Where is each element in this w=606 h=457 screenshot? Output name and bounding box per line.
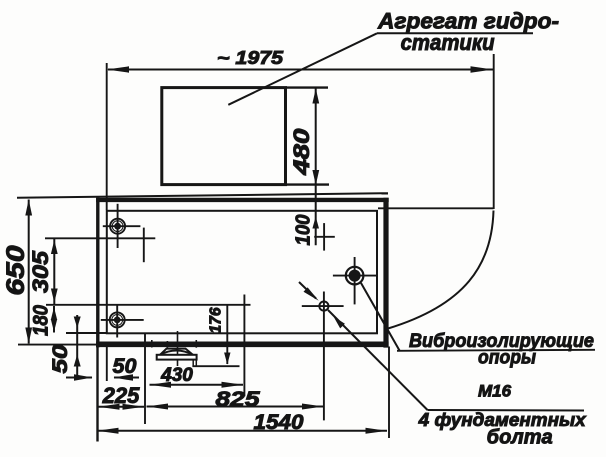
svg-text:М16: М16	[478, 382, 512, 401]
svg-text:825: 825	[216, 387, 261, 411]
dimension 50 horizontal left segment with arrow	[66, 377, 92, 379]
svg-text:180: 180	[30, 305, 53, 336]
dimension 430 arrow left	[150, 382, 172, 388]
unit bottom edge extension	[286, 183, 330, 185]
dimension 180 arrow top	[51, 307, 57, 320]
plate right edge extended down	[388, 347, 390, 439]
svg-text:50: 50	[113, 354, 137, 378]
dimension 305 arrow bottom	[51, 289, 58, 303]
dimension ~1975 arrow right	[471, 66, 494, 72]
dimension 305 arrow top	[51, 240, 58, 254]
dimension 50 vertical arrow down	[74, 317, 81, 329]
hydrostatic unit label underline	[377, 32, 533, 34]
dimension 225 arrow right	[123, 404, 145, 410]
dimension 100 arrow	[312, 217, 319, 229]
foot base bar	[157, 355, 197, 360]
dimension 825 arrow right	[302, 404, 324, 410]
foot dome	[160, 349, 193, 355]
corner arc	[388, 211, 494, 329]
foot centerline	[177, 331, 179, 366]
plate left edge extended down	[96, 347, 98, 442]
anchor hole crosshair horizontal	[302, 305, 344, 307]
dimension 1540 arrow right	[366, 428, 388, 434]
bolt top-left center dot	[114, 223, 121, 230]
svg-text:~ 1975: ~ 1975	[217, 47, 284, 68]
dimension 1540 line	[97, 430, 387, 432]
dimension 825 arrow left	[147, 404, 169, 410]
foundation plate inner outline	[107, 211, 377, 333]
dimension 1540 arrow left	[97, 428, 119, 434]
bolt bottom-left crosshair horizontal	[101, 319, 144, 321]
foot tick marks across plate bottom	[151, 340, 153, 348]
dimension 305 line	[53, 239, 55, 305]
leader to vibration supports label	[361, 283, 400, 351]
plate inner left line extended down	[106, 347, 108, 382]
hole cross left vertical	[143, 228, 145, 263]
vibration support crosshair vertical	[354, 257, 356, 304]
svg-text:опоры: опоры	[478, 347, 536, 369]
floor line	[17, 193, 388, 198]
hole cross right horizontal	[314, 236, 335, 238]
svg-text:305: 305	[28, 250, 53, 293]
step line near foot stem	[192, 365, 239, 367]
leader to foundation bolts label	[328, 310, 428, 410]
svg-text:50: 50	[48, 344, 72, 373]
dimension 305 top extension line	[45, 237, 155, 239]
dimension 430 right extension	[243, 295, 245, 397]
dimension ~1975 arrow left	[107, 66, 130, 72]
dimension 650 arrow top	[25, 200, 32, 216]
inner bottom line extension left	[66, 332, 107, 334]
dimension 430 arrow right	[222, 382, 244, 388]
foot dome inner arc	[160, 351, 193, 355]
svg-text:100: 100	[292, 214, 315, 246]
vibration support crosshair horizontal	[333, 275, 377, 277]
leader to hydrostatic unit	[228, 33, 377, 105]
svg-text:статики: статики	[401, 30, 496, 55]
bolt top-left outer circle	[110, 219, 125, 234]
vibration support bolt outer circle	[346, 267, 364, 285]
bolt bottom-left inner ring	[112, 315, 123, 326]
dimension 480 arrow bottom	[312, 170, 319, 185]
dimension 430 line	[150, 384, 244, 386]
dimension ~1975 extension line left	[106, 63, 108, 210]
bolt bottom-left crosshair vertical	[116, 304, 118, 338]
bolt top-left crosshair horizontal	[103, 225, 141, 227]
dimension 650 arrow bottom	[25, 328, 32, 344]
anchor hole small circle	[319, 302, 328, 311]
foundation bolts label overline	[428, 409, 585, 412]
dimension 50 vertical arrow up	[74, 355, 81, 367]
dimension ~1975 line	[108, 69, 493, 71]
dimension 480 line	[315, 88, 317, 246]
bolt bottom-left outer circle	[110, 312, 125, 327]
hole cross right vertical	[323, 223, 325, 251]
svg-text:1540: 1540	[254, 410, 304, 434]
bolt top-left inner ring	[112, 221, 123, 232]
dimension 305 bottom extension line	[46, 304, 251, 306]
foot stem	[192, 360, 194, 367]
unit top edge extension	[286, 86, 329, 88]
svg-text:650: 650	[2, 245, 30, 295]
dimension 176 line	[226, 305, 228, 364]
bolt bottom-left center dot	[114, 317, 121, 324]
dimension 50 horizontal right segment with arrow	[114, 377, 139, 379]
dimension 176 arrow	[224, 353, 230, 365]
short arrow to anchor hole	[299, 282, 316, 299]
svg-text:480: 480	[289, 128, 314, 176]
dimension ~1975 extension line right	[493, 54, 495, 209]
bolt top-left crosshair vertical	[117, 204, 119, 248]
svg-text:болта: болта	[487, 427, 553, 449]
extension line x145	[144, 334, 146, 424]
anchor hole vertical centerline extended	[323, 292, 325, 421]
dimension 180 line	[53, 306, 55, 333]
inner top line extension right	[378, 207, 494, 209]
dimension 225 arrow left	[98, 404, 120, 410]
foundation plate outer outline	[96, 198, 99, 348]
dimension 480 arrow top	[312, 89, 319, 104]
hydrostatic unit rectangle	[162, 88, 286, 185]
dimension 825 line	[147, 406, 324, 408]
dimension 225 line	[98, 406, 144, 408]
vibration supports label underline	[397, 350, 595, 351]
svg-text:430: 430	[160, 365, 193, 386]
svg-text:176: 176	[208, 307, 225, 333]
dimension 650 line	[28, 200, 30, 344]
dimension 50 vertical line	[76, 315, 78, 375]
vibration support bolt center disc	[349, 270, 361, 282]
svg-text:225: 225	[102, 383, 140, 408]
dimension 650 bottom extension	[18, 344, 97, 346]
dimension 180 arrow bottom	[51, 319, 57, 332]
